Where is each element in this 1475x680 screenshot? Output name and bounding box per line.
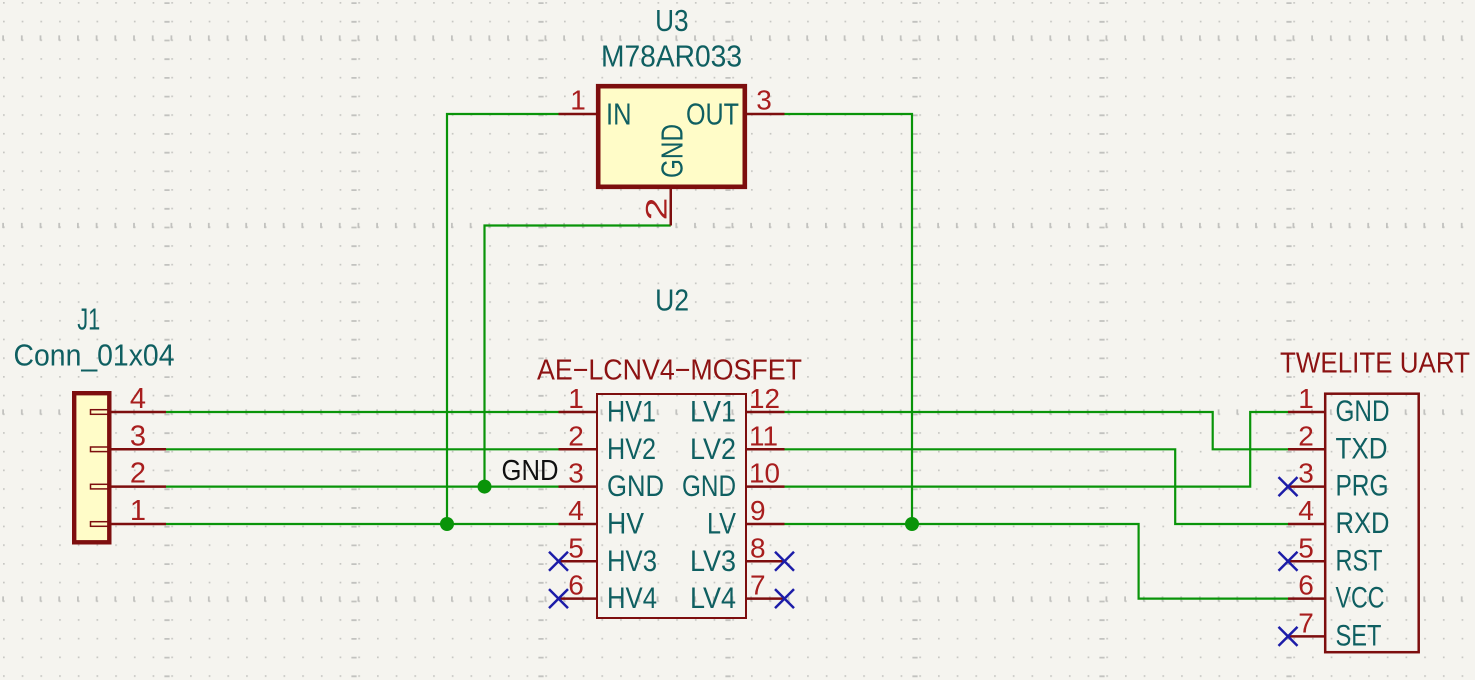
U2 pin 10 stub	[747, 485, 785, 488]
J1 pin 4 socket	[91, 410, 111, 415]
U3 pin 3 stub	[747, 113, 785, 116]
svg-text:HV: HV	[607, 508, 644, 541]
svg-text:HV1: HV1	[607, 396, 656, 429]
svg-text:HV3: HV3	[607, 545, 657, 578]
U2 pin 3 stub	[559, 485, 597, 488]
U2 pin 4 stub	[559, 523, 597, 526]
svg-text:HV2: HV2	[607, 433, 656, 466]
svg-text:IN: IN	[606, 97, 632, 132]
svg-text:5: 5	[1298, 532, 1314, 563]
wire U2 GND right to TWELITE GND	[785, 412, 1289, 487]
wire U2 LV to VCC feed	[785, 524, 1289, 599]
svg-text:1: 1	[130, 495, 146, 527]
svg-text:3: 3	[130, 420, 146, 452]
level converter U2 body	[597, 394, 746, 618]
svg-text:9: 9	[750, 495, 766, 526]
TWELITE pin 7 stub	[1288, 635, 1324, 638]
svg-text:U3: U3	[655, 3, 689, 38]
TWELITE pin 5 stub	[1288, 560, 1324, 563]
U3 pin 1 stub	[559, 113, 597, 116]
wire net GND left: J1 pin2 to U2 GND	[166, 486, 559, 488]
svg-text:4: 4	[1298, 495, 1314, 526]
U3 pin 2 stub	[670, 189, 673, 226]
svg-text:M78AR033: M78AR033	[601, 39, 742, 74]
J1 pin 2 socket	[91, 484, 111, 489]
svg-text:GND: GND	[655, 124, 690, 178]
TWELITE pin 1 stub	[1288, 411, 1324, 414]
U2 pin 6 stub	[559, 597, 597, 600]
svg-text:LV3: LV3	[690, 545, 736, 578]
svg-text:2: 2	[641, 198, 674, 221]
connector J1 body	[74, 393, 109, 542]
U2 pin 1 stub	[559, 411, 597, 414]
svg-text:10: 10	[749, 458, 780, 489]
J1 pin 3 socket	[91, 447, 111, 452]
svg-text:LV4: LV4	[690, 582, 736, 615]
svg-text:2: 2	[130, 458, 146, 490]
svg-text:TXD: TXD	[1336, 432, 1388, 465]
svg-text:OUT: OUT	[686, 97, 739, 132]
svg-text:PRG: PRG	[1336, 470, 1389, 503]
svg-text:GND: GND	[682, 470, 736, 503]
wire U2 LV2 to TWELITE RXD	[785, 449, 1289, 524]
TWELITE pin 4 stub	[1288, 523, 1324, 526]
U2 no-connect pin 7	[775, 589, 794, 608]
J1 pin 3 stub	[112, 448, 167, 451]
U2 pin 8 stub	[747, 560, 785, 563]
svg-text:4: 4	[568, 495, 584, 526]
TWELITE pin 3 stub	[1288, 485, 1324, 488]
svg-text:12: 12	[749, 383, 780, 414]
svg-text:7: 7	[1298, 607, 1314, 638]
svg-text:2: 2	[568, 420, 584, 451]
TWELITE pin 6 stub	[1288, 597, 1324, 600]
TWELITE no-connect pin 3	[1279, 477, 1298, 496]
svg-text:TWELITE UART: TWELITE UART	[1280, 348, 1470, 380]
svg-text:6: 6	[568, 570, 584, 601]
svg-text:4: 4	[130, 383, 146, 415]
U2 pin 9 stub	[747, 523, 785, 526]
svg-text:7: 7	[750, 570, 766, 601]
svg-text:3: 3	[568, 458, 584, 489]
U2 no-connect pin 8	[775, 552, 794, 571]
U2 no-connect pin 5	[549, 552, 568, 571]
wire GND riser to U3 pin2	[485, 226, 671, 487]
wire VIN riser to U3 IN	[447, 114, 559, 524]
U2 no-connect pin 6	[549, 589, 568, 608]
J1 pin 2 stub	[112, 485, 167, 488]
TWELITE pin 2 stub	[1288, 448, 1324, 451]
U2 pin 11 stub	[747, 448, 785, 451]
U2 pin 5 stub	[559, 560, 597, 563]
junction at 3V3 node	[905, 517, 919, 531]
connector TWELITE UART body	[1325, 394, 1419, 653]
svg-text:11: 11	[749, 420, 778, 451]
svg-text:RST: RST	[1336, 544, 1383, 577]
J1 pin 1 socket	[91, 522, 111, 527]
U2 pin 2 stub	[559, 448, 597, 451]
svg-text:5: 5	[568, 532, 584, 563]
svg-text:LV1: LV1	[690, 396, 736, 429]
wire J1 pin4 to U2 HV1	[166, 411, 559, 413]
wire net 3V3: U3 OUT down to LV row	[785, 114, 913, 524]
wire U2 LV1 to TWELITE TXD	[785, 412, 1289, 449]
svg-text:RXD: RXD	[1336, 507, 1390, 540]
J1 pin 1 stub	[112, 523, 167, 526]
U2 pin 12 stub	[747, 411, 785, 414]
svg-text:1: 1	[1298, 383, 1314, 414]
J1 pin 4 stub	[112, 411, 167, 414]
svg-text:GND: GND	[1336, 395, 1390, 428]
svg-text:U2: U2	[655, 283, 689, 318]
TWELITE no-connect pin 7	[1279, 627, 1298, 646]
wire J1 pin3 to U2 HV2	[166, 448, 559, 450]
svg-text:HV4: HV4	[607, 582, 657, 615]
svg-text:2: 2	[1298, 420, 1314, 451]
junction at GND node	[478, 480, 492, 494]
svg-text:SET: SET	[1336, 619, 1382, 652]
svg-text:GND: GND	[607, 470, 664, 503]
svg-text:GND: GND	[502, 455, 559, 487]
svg-text:AE−LCNV4−MOSFET: AE−LCNV4−MOSFET	[537, 355, 802, 387]
svg-text:3: 3	[756, 85, 772, 116]
svg-text:3: 3	[1298, 458, 1314, 489]
U2 pin 7 stub	[747, 597, 785, 600]
svg-text:VCC: VCC	[1336, 582, 1385, 615]
svg-text:LV2: LV2	[690, 433, 736, 466]
wire net VIN: J1 pin1 to U2 HV	[166, 114, 1288, 599]
junction at VIN node	[440, 517, 454, 531]
svg-text:6: 6	[1298, 570, 1314, 601]
TWELITE no-connect pin 5	[1279, 552, 1298, 571]
svg-text:Conn_01x04: Conn_01x04	[14, 338, 175, 373]
svg-text:8: 8	[750, 532, 766, 563]
regulator U3 body	[598, 86, 745, 187]
svg-text:1: 1	[570, 85, 586, 116]
svg-text:J1: J1	[77, 302, 100, 337]
svg-text:1: 1	[568, 383, 584, 414]
svg-text:LV: LV	[707, 508, 736, 541]
